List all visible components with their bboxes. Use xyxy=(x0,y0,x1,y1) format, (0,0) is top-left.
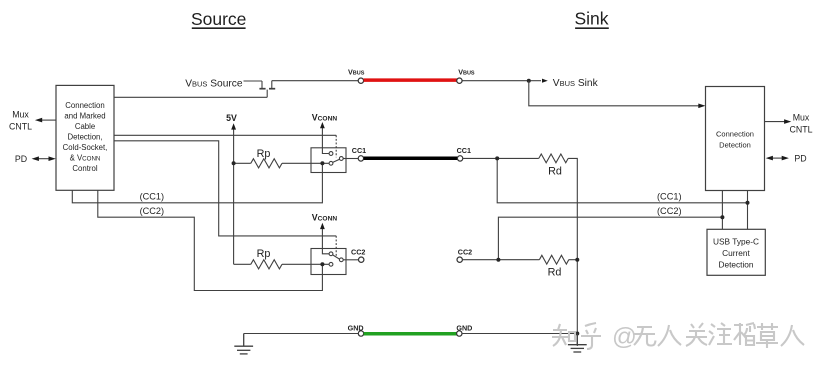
svg-text:Cable: Cable xyxy=(75,122,95,131)
svg-text:Source: Source xyxy=(191,9,246,29)
svg-text:Rp: Rp xyxy=(257,248,271,260)
svg-text:(CC1): (CC1) xyxy=(140,191,165,201)
wire VBUS node2 to sink junction xyxy=(462,80,529,82)
svg-text:Connection: Connection xyxy=(716,130,754,139)
svg-text:Control: Control xyxy=(72,164,97,173)
wire transistor gate to control block xyxy=(114,96,267,98)
node CC1 pin source xyxy=(358,156,363,161)
svg-text:and Marked: and Marked xyxy=(64,112,105,121)
transistor Q1 pass FET xyxy=(259,81,275,98)
arrow VBUS Sink stub xyxy=(529,80,541,82)
arrow Mux CNTL left xyxy=(41,119,56,121)
svg-text:Sink: Sink xyxy=(574,9,608,29)
svg-text:CNTL: CNTL xyxy=(9,122,32,132)
wire VBUS junction down and right to sink block xyxy=(529,81,699,106)
node CC1/branch junction xyxy=(495,156,499,160)
node CC1 pin sink xyxy=(457,156,462,161)
svg-text:Rp: Rp xyxy=(257,148,271,160)
wire 5V rail xyxy=(233,128,235,265)
title Source xyxy=(191,9,246,29)
svg-text:GND: GND xyxy=(456,324,472,333)
wire GND left xyxy=(244,333,359,335)
wire GND right xyxy=(462,333,577,335)
wire 5V to Rp1 xyxy=(234,162,251,164)
node (CC2)/stub junction xyxy=(720,215,724,219)
wire CC2 sink to Rd2 xyxy=(462,259,539,261)
char 稻 xyxy=(734,323,755,345)
node CC2 pin source xyxy=(359,257,364,262)
ground symbol left xyxy=(234,334,253,354)
arrow Mux CNTL right xyxy=(765,121,786,123)
svg-text:Detection,: Detection, xyxy=(67,133,102,142)
wire CC1 branch down to (CC1) right xyxy=(497,158,747,202)
node 5V/Rp1 junction xyxy=(232,161,236,165)
switch SW2 common circle xyxy=(329,262,333,266)
svg-text:Rd: Rd xyxy=(548,266,562,278)
svg-text:Mux: Mux xyxy=(12,110,29,120)
resistor Rp1 xyxy=(251,159,282,168)
watermark 知乎 @无人关注稻草人 xyxy=(552,323,804,349)
node SW1 common junction xyxy=(320,161,324,165)
svg-text:PD: PD xyxy=(15,154,27,164)
wire VBUS Source label to transistor xyxy=(244,80,263,82)
node CC2/branch junction xyxy=(496,258,500,262)
svg-text:5V: 5V xyxy=(226,113,237,123)
wire CC1 cable (thick) xyxy=(364,156,459,160)
svg-text:VBUS: VBUS xyxy=(458,67,475,76)
svg-text:(CC2): (CC2) xyxy=(140,206,165,216)
USB Type-C Current Detection block xyxy=(707,229,765,275)
resistor Rp2 xyxy=(251,260,282,269)
svg-text:Detection: Detection xyxy=(719,141,751,150)
svg-text:Detection: Detection xyxy=(718,260,753,270)
char 知 xyxy=(552,324,575,346)
svg-text:USB Type-C: USB Type-C xyxy=(713,237,759,247)
svg-text:VCONN: VCONN xyxy=(312,112,338,122)
node VBUS pin source xyxy=(358,78,363,83)
wire (CC2) right routing xyxy=(498,217,722,260)
char 人 (2) xyxy=(781,325,804,346)
svg-text:Cold-Socket,: Cold-Socket, xyxy=(63,143,108,152)
wire (CC2) left routing xyxy=(98,191,323,291)
wire GND cable (thick green) xyxy=(364,332,459,336)
svg-text:VBUS: VBUS xyxy=(348,67,365,76)
node VBUS pin sink xyxy=(457,78,462,83)
node GND/rail junction xyxy=(575,332,579,336)
node VBUS sink junction xyxy=(527,79,531,83)
svg-text:(CC2): (CC2) xyxy=(657,206,682,216)
wire (CC1) left routing xyxy=(72,163,322,203)
svg-text:VBUS Source: VBUS Source xyxy=(185,78,243,89)
svg-text:Mux: Mux xyxy=(793,113,810,123)
switch SW2 box xyxy=(311,249,346,275)
switch SW2 throw circle VCONN xyxy=(329,252,333,256)
node SW2 common junction xyxy=(320,262,324,266)
svg-text:CC1: CC1 xyxy=(457,146,471,155)
wire VCONN2 arrow and lead xyxy=(322,227,329,254)
svg-text:Rd: Rd xyxy=(548,165,562,177)
svg-text:VBUS Sink: VBUS Sink xyxy=(553,78,599,89)
wire Rd2 to ground rail xyxy=(569,259,578,261)
switch SW1 box xyxy=(311,148,346,173)
wire SW1 output to CC1 pin xyxy=(343,158,358,160)
wire transistor drain to VBUS node xyxy=(272,80,359,82)
wire Rp2 to switch2 xyxy=(282,263,329,265)
wire sink stub CC1 xyxy=(747,191,749,230)
arrow PD right (double) xyxy=(771,157,784,159)
svg-text:CNTL: CNTL xyxy=(790,125,813,135)
svg-text:(CC1): (CC1) xyxy=(657,191,682,201)
node Rd2/ground rail junction xyxy=(575,258,579,262)
svg-text:CC2: CC2 xyxy=(458,248,472,257)
svg-text:Current: Current xyxy=(722,248,750,258)
wire sink stub CC2 xyxy=(721,191,723,230)
switch SW1 throw circle VCONN xyxy=(329,152,333,156)
char 乎 xyxy=(581,323,601,349)
svg-text:CC2: CC2 xyxy=(351,248,365,257)
switch SW1 common circle xyxy=(329,161,333,165)
wire CC1 sink to Rd1 xyxy=(463,157,539,159)
wire Rp1 to switch1 xyxy=(282,162,329,164)
title Sink xyxy=(574,9,608,29)
svg-text:CC1: CC1 xyxy=(352,146,366,155)
svg-text:PD: PD xyxy=(794,153,806,163)
svg-text:Connection: Connection xyxy=(65,101,104,110)
arrow PD left (double) xyxy=(37,158,51,160)
switch SW2 output circle xyxy=(339,258,343,262)
switch SW2 lever xyxy=(333,255,340,259)
svg-text:GND: GND xyxy=(348,324,364,333)
control block U1 xyxy=(56,85,114,190)
wire Rp2 from 5V xyxy=(234,263,251,265)
char 人 xyxy=(658,325,681,346)
wire VBUS cable (thick red) xyxy=(364,78,459,82)
node (CC1)/stub junction xyxy=(746,201,750,205)
char 注 xyxy=(709,323,732,345)
wire control to switch1 (dashed control) xyxy=(114,134,336,136)
switch SW1 output circle xyxy=(339,157,343,161)
svg-text:VCONN: VCONN xyxy=(312,213,338,223)
node CC2 pin sink xyxy=(457,257,462,262)
char 无 xyxy=(633,327,656,346)
svg-text:@: @ xyxy=(612,324,637,351)
svg-text:& VCONN: & VCONN xyxy=(70,154,101,163)
resistor Rd1 xyxy=(539,154,568,163)
char 关 xyxy=(686,323,707,346)
char 草 xyxy=(756,323,778,348)
node GND pin source xyxy=(358,331,363,336)
wire control to switch2 (dashed control) xyxy=(114,141,336,236)
switch SW1 lever xyxy=(333,159,340,162)
wire VCONN1 arrow and lead xyxy=(322,126,329,154)
wire Rd1 to ground rail xyxy=(568,158,577,346)
resistor Rd2 xyxy=(539,255,568,264)
ground symbol right xyxy=(568,334,587,353)
wire SW2 output to CC2 pin xyxy=(343,259,358,261)
sink block Connection Detection xyxy=(706,87,765,191)
node GND pin sink xyxy=(457,331,462,336)
